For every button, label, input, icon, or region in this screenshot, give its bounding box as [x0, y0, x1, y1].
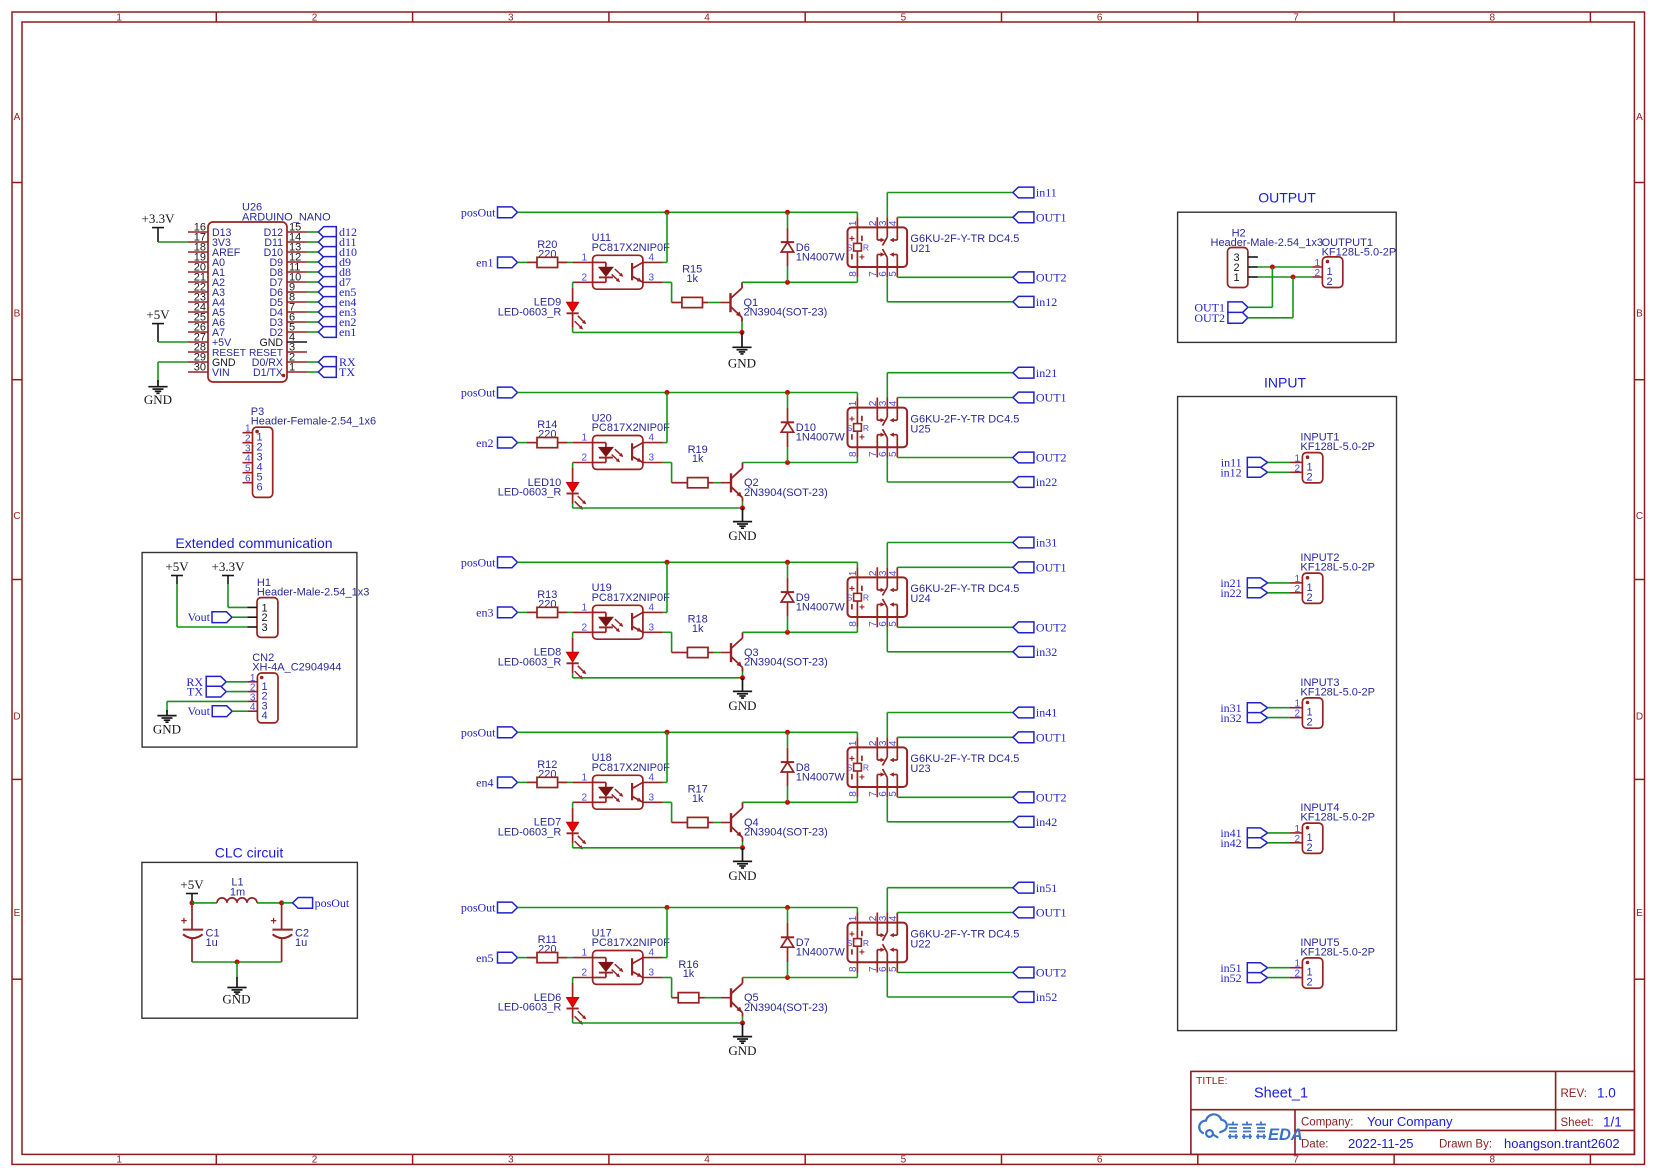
- node GND junction ch1: [740, 330, 745, 335]
- wire R18 to Q3 base: [714, 652, 721, 654]
- svg-text:B: B: [1636, 309, 1643, 320]
- arduino U26 ARDUINO_NANO: [188, 202, 331, 383]
- svg-text:LED-0603_R: LED-0603_R: [498, 1002, 562, 1014]
- svg-text:3: 3: [508, 1155, 514, 1166]
- pin 18 AREF: [188, 251, 208, 253]
- wire net in51: [887, 888, 1013, 913]
- net label TX ext: [187, 685, 226, 699]
- net label OUT1 ch4: [1013, 731, 1067, 745]
- svg-text:OUT2: OUT2: [1036, 966, 1067, 980]
- resistor R11 220: [527, 934, 568, 963]
- svg-text:C: C: [13, 511, 20, 522]
- wire posOut rail ch5: [518, 908, 858, 913]
- net label in42: [1013, 815, 1057, 829]
- svg-text:LED-0603_R: LED-0603_R: [498, 656, 562, 668]
- diode D6 1N4007W: [781, 212, 846, 282]
- resistor R13 220: [527, 589, 568, 618]
- net label in42: [1220, 836, 1267, 850]
- svg-text:8: 8: [848, 271, 859, 277]
- svg-text:GND: GND: [728, 868, 756, 883]
- wire in52: [1268, 977, 1290, 979]
- svg-text:2: 2: [1294, 709, 1300, 720]
- wire GND to pin GND: [158, 361, 188, 363]
- title block: [1191, 1071, 1635, 1154]
- net label RX ext: [186, 675, 226, 689]
- svg-text:VIN: VIN: [212, 367, 230, 379]
- resistor R17 1k: [672, 784, 714, 828]
- resistor R12 220: [527, 759, 568, 788]
- wire in42: [1268, 842, 1290, 844]
- svg-text:in42: in42: [1036, 815, 1057, 829]
- wire net TX: [307, 371, 318, 373]
- wire R12 to U18 pin1: [568, 781, 573, 783]
- pin 23 A4: [188, 301, 208, 303]
- node A (left): [190, 900, 195, 905]
- svg-text:KF128L-5.0-2P: KF128L-5.0-2P: [1300, 812, 1375, 824]
- resistor R20 220: [527, 239, 568, 268]
- svg-text:1k: 1k: [686, 273, 698, 285]
- svg-text:1N4007W: 1N4007W: [796, 947, 846, 959]
- svg-text:4: 4: [704, 1155, 710, 1166]
- svg-text:+5V: +5V: [146, 307, 170, 322]
- net label OUT2 ch5: [1013, 966, 1067, 980]
- svg-text:OUT2: OUT2: [1036, 451, 1067, 465]
- svg-text:3: 3: [649, 453, 655, 464]
- wire U11 pin4 to posOut: [663, 212, 667, 262]
- svg-text:in42: in42: [1220, 836, 1241, 850]
- section Extended communication: [142, 535, 357, 747]
- wire +5V to pin +5V: [158, 341, 188, 343]
- svg-text:KF128L-5.0-2P: KF128L-5.0-2P: [1300, 687, 1375, 699]
- wire net in31: [887, 543, 1013, 568]
- svg-text:CLC circuit: CLC circuit: [215, 845, 284, 861]
- wire en1 to R20: [518, 261, 528, 263]
- wire net d7: [307, 281, 318, 283]
- connector INPUT5 KF128L-5.0-2P: [1290, 937, 1375, 989]
- svg-text:TX: TX: [339, 365, 355, 379]
- svg-text:in32: in32: [1036, 645, 1057, 659]
- wire posOut rail ch3: [518, 562, 858, 567]
- node GND junction ch4: [740, 845, 745, 850]
- svg-text:5: 5: [888, 271, 899, 277]
- pin 1: [243, 432, 253, 434]
- svg-text:4: 4: [649, 602, 655, 613]
- wire in11: [1268, 461, 1290, 463]
- power +5V: [146, 307, 170, 342]
- net label in12: [1013, 295, 1057, 309]
- connector INPUT3 KF128L-5.0-2P: [1290, 677, 1375, 729]
- wire net OUT1 ch4: [897, 736, 1013, 738]
- pin 29 GND: [188, 361, 208, 363]
- svg-text:OUTPUT: OUTPUT: [1258, 190, 1316, 206]
- svg-text:6: 6: [257, 482, 263, 494]
- optocoupler U19 PC817X2NIP0F: [573, 582, 671, 639]
- net label OUT2 ch1: [1013, 271, 1067, 285]
- resistor R19 1k: [672, 444, 714, 488]
- svg-text:Drawn By:: Drawn By:: [1439, 1139, 1492, 1151]
- optocoupler U11 PC817X2NIP0F: [573, 232, 671, 289]
- net label OUT1 ch3: [1013, 561, 1067, 575]
- svg-text:5: 5: [888, 621, 899, 627]
- net label Vout (CN2): [188, 704, 233, 718]
- net label OUT1 ch5: [1013, 906, 1067, 920]
- net label OUT2 ch2: [1013, 451, 1067, 465]
- wire R20 to U11 pin1: [568, 261, 573, 263]
- svg-text:U22: U22: [910, 938, 930, 950]
- svg-text:GND: GND: [728, 698, 756, 713]
- pin 22 A3: [188, 291, 208, 293]
- wire net d11: [307, 241, 318, 243]
- svg-text:PC817X2NIP0F: PC817X2NIP0F: [592, 937, 671, 949]
- net label en2: [318, 315, 356, 329]
- svg-text:1: 1: [581, 948, 587, 959]
- svg-text:4: 4: [262, 710, 268, 722]
- svg-text:in21: in21: [1036, 366, 1057, 380]
- net label posOut ch3: [461, 556, 518, 570]
- svg-text:+: +: [859, 433, 865, 444]
- net label d9: [318, 255, 351, 269]
- svg-text:S: S: [847, 593, 853, 603]
- svg-text:1u: 1u: [295, 937, 307, 949]
- svg-text:U24: U24: [910, 593, 930, 605]
- net label Vout (H1): [188, 610, 232, 624]
- svg-text:in22: in22: [1036, 475, 1057, 489]
- svg-text:2022-11-25: 2022-11-25: [1348, 1136, 1414, 1151]
- wire net in21: [887, 373, 1013, 398]
- svg-text:LED-0603_R: LED-0603_R: [498, 306, 562, 318]
- svg-text:in22: in22: [1220, 586, 1241, 600]
- svg-text:5: 5: [901, 13, 907, 24]
- svg-text:posOut: posOut: [315, 896, 350, 910]
- wire in21: [1268, 582, 1290, 584]
- svg-text:1: 1: [1234, 272, 1240, 284]
- net label in12: [1220, 466, 1267, 480]
- svg-text:Header-Female-2.54_1x6: Header-Female-2.54_1x6: [251, 416, 376, 428]
- wire bottom clc: [192, 961, 282, 963]
- pin 30 VIN: [188, 371, 208, 373]
- svg-text:8: 8: [848, 621, 859, 627]
- svg-text:in41: in41: [1036, 706, 1057, 720]
- pin 6 D3: [287, 321, 307, 323]
- wire in12: [1268, 471, 1290, 473]
- svg-text:Sheet:: Sheet:: [1561, 1117, 1594, 1129]
- connector INPUT4 KF128L-5.0-2P: [1290, 802, 1375, 854]
- svg-text:+3.3V: +3.3V: [142, 211, 176, 226]
- wire U19 pin4 to posOut: [663, 562, 667, 612]
- svg-text:A: A: [1636, 112, 1643, 123]
- svg-text:REV:: REV:: [1561, 1088, 1587, 1100]
- svg-text:3: 3: [508, 13, 514, 24]
- svg-text:Extended communication: Extended communication: [175, 535, 332, 551]
- svg-text:1: 1: [848, 400, 859, 406]
- capacitor C2 1u: [270, 903, 309, 962]
- svg-text:R: R: [863, 423, 869, 433]
- wire H2 pin2 to OUTPUT1 pin1: [1258, 266, 1313, 268]
- svg-text:S: S: [847, 763, 853, 773]
- pin 3 RESET: [287, 351, 307, 353]
- optocoupler U18 PC817X2NIP0F: [573, 752, 671, 809]
- net label OUT2 out: [1194, 311, 1248, 325]
- power +5V clc: [180, 877, 204, 903]
- wire in41: [1268, 832, 1290, 834]
- power +5V ext: [165, 559, 189, 584]
- svg-text:1: 1: [289, 362, 295, 374]
- net label TX: [318, 365, 355, 379]
- relay U24 G6KU-2F-Y-TR DC4.5: [847, 567, 1020, 627]
- svg-text:Vout: Vout: [188, 704, 211, 718]
- section OUTPUT: [1178, 190, 1397, 343]
- net label OUT2 ch3: [1013, 621, 1067, 635]
- svg-text:4: 4: [649, 433, 655, 444]
- svg-text:5: 5: [888, 966, 899, 972]
- pin 2: [243, 442, 253, 444]
- svg-text:Company:: Company:: [1301, 1117, 1353, 1129]
- net label posOut ch1: [461, 206, 518, 220]
- wire posOut rail ch1: [518, 212, 858, 217]
- svg-text:R: R: [863, 763, 869, 773]
- svg-text:1N4007W: 1N4007W: [796, 252, 846, 264]
- svg-text:KF128L-5.0-2P: KF128L-5.0-2P: [1300, 947, 1375, 959]
- ground GND ext: [153, 710, 181, 737]
- svg-text:2: 2: [1307, 977, 1313, 989]
- wire U20 pin4 to posOut: [663, 393, 667, 443]
- wire net OUT2 ch1: [897, 276, 1013, 278]
- svg-text:2: 2: [1294, 834, 1300, 845]
- relay U25 G6KU-2F-Y-TR DC4.5: [847, 398, 1020, 458]
- net label in21: [1013, 366, 1057, 380]
- svg-text:Header-Male-2.54_1x3: Header-Male-2.54_1x3: [257, 587, 370, 599]
- net label RX: [318, 355, 356, 369]
- wire net d9: [307, 261, 318, 263]
- svg-text:in31: in31: [1036, 536, 1057, 550]
- net label posOut ch4: [461, 726, 518, 740]
- resistor R18 1k: [672, 614, 714, 658]
- wire OUT2 drop: [1292, 277, 1294, 318]
- svg-text:3: 3: [649, 622, 655, 633]
- svg-text:LED-0603_R: LED-0603_R: [498, 826, 562, 838]
- wire net en2: [307, 321, 318, 323]
- led LED10 LED-0603_R: [498, 463, 587, 510]
- section CLC circuit: [142, 845, 358, 1019]
- wire net in11: [887, 193, 1013, 218]
- node D7-collector: [785, 975, 790, 980]
- svg-text:2: 2: [1294, 969, 1300, 980]
- svg-text:4: 4: [250, 702, 256, 713]
- resistor R15 1k: [672, 264, 709, 308]
- svg-text:1N4007W: 1N4007W: [796, 602, 846, 614]
- wire collector rail ch3: [743, 627, 858, 632]
- node GND junction ch2: [740, 506, 745, 511]
- net label en5: [318, 285, 356, 299]
- svg-text:8: 8: [848, 966, 859, 972]
- svg-text:A: A: [14, 112, 21, 123]
- transistor Q2 2N3904(SOT-23): [721, 463, 828, 502]
- svg-text:posOut: posOut: [461, 726, 496, 740]
- svg-text:PC817X2NIP0F: PC817X2NIP0F: [592, 422, 671, 434]
- net label OUT1 ch2: [1013, 391, 1067, 405]
- wire Vout to H1 pin2: [232, 616, 248, 618]
- svg-text:2: 2: [581, 792, 587, 803]
- wire CN2 pin3 to GND: [167, 701, 247, 712]
- net label posOut ch2: [461, 386, 518, 400]
- svg-text:D1/TX: D1/TX: [253, 367, 283, 379]
- ground GND ch1: [728, 332, 756, 370]
- node posOut-D10 ch2: [785, 390, 790, 395]
- logo JLC EDA: [1199, 1114, 1303, 1144]
- svg-text:+: +: [181, 915, 187, 927]
- svg-text:OUT2: OUT2: [1036, 621, 1067, 635]
- node GND junction ch3: [740, 675, 745, 680]
- svg-text:3: 3: [649, 968, 655, 979]
- wire net OUT1 ch2: [897, 397, 1013, 399]
- svg-text:2: 2: [312, 1155, 318, 1166]
- wire RX: [226, 681, 247, 683]
- svg-text:KF128L-5.0-2P: KF128L-5.0-2P: [1300, 562, 1375, 574]
- svg-text:+: +: [270, 915, 276, 927]
- node D10-collector: [785, 460, 790, 465]
- pin 14 D11: [287, 241, 307, 243]
- wire net RX: [307, 361, 318, 363]
- svg-text:U23: U23: [910, 763, 930, 775]
- wire collector rail ch4: [743, 797, 858, 802]
- svg-text:4: 4: [649, 948, 655, 959]
- svg-text:6: 6: [245, 474, 251, 485]
- pin 15 D12: [287, 231, 307, 233]
- svg-text:4: 4: [649, 252, 655, 263]
- net label in22: [1013, 475, 1057, 489]
- ground GND clc: [222, 962, 250, 1007]
- pin 21 A2: [188, 281, 208, 283]
- svg-text:KF128L-5.0-2P: KF128L-5.0-2P: [1300, 441, 1375, 453]
- svg-text:+: +: [859, 252, 865, 263]
- svg-text:2N3904(SOT-23): 2N3904(SOT-23): [744, 1002, 828, 1014]
- svg-text:PC817X2NIP0F: PC817X2NIP0F: [592, 592, 671, 604]
- svg-text:1N4007W: 1N4007W: [796, 772, 846, 784]
- svg-text:+5V: +5V: [165, 559, 189, 574]
- svg-text:+: +: [859, 772, 865, 783]
- svg-text:2N3904(SOT-23): 2N3904(SOT-23): [744, 827, 828, 839]
- svg-text:Your Company: Your Company: [1367, 1114, 1453, 1129]
- svg-text:1: 1: [116, 1155, 122, 1166]
- net label in11: [1013, 186, 1057, 200]
- pin 24 A5: [188, 311, 208, 313]
- svg-text:2: 2: [1327, 276, 1333, 288]
- svg-text:EDA: EDA: [1268, 1126, 1303, 1144]
- svg-text:4: 4: [888, 570, 899, 576]
- svg-text:OUT1: OUT1: [1036, 906, 1067, 920]
- transistor Q3 2N3904(SOT-23): [721, 632, 828, 671]
- net label en3: [318, 305, 356, 319]
- net label d11: [318, 235, 356, 249]
- svg-text:8: 8: [1490, 1155, 1496, 1166]
- svg-text:2N3904(SOT-23): 2N3904(SOT-23): [744, 487, 828, 499]
- net label posOut clc: [282, 896, 350, 910]
- svg-text:2: 2: [581, 453, 587, 464]
- connector INPUT2 KF128L-5.0-2P: [1290, 552, 1375, 604]
- wire R14 to U20 pin1: [568, 442, 573, 444]
- svg-text:4: 4: [888, 740, 899, 746]
- svg-text:4: 4: [649, 772, 655, 783]
- svg-text:S: S: [847, 243, 853, 253]
- net label in21: [1220, 576, 1267, 590]
- svg-text:XH-4A_C2904944: XH-4A_C2904944: [252, 662, 341, 674]
- wire net OUT2 ch2: [897, 457, 1013, 459]
- resistor R14 220: [527, 419, 568, 448]
- svg-text:4: 4: [888, 220, 899, 226]
- svg-text:posOut: posOut: [461, 386, 496, 400]
- wire U19 pin3 to R18: [663, 632, 672, 652]
- svg-text:R: R: [863, 243, 869, 253]
- diode D10 1N4007W: [781, 393, 846, 463]
- wire net in42: [887, 797, 1013, 822]
- wire R17 to Q4 base: [714, 822, 721, 824]
- wire emitter-LED-GND ch2: [573, 502, 743, 508]
- node posOut-D8 ch4: [785, 730, 790, 735]
- svg-text:2N3904(SOT-23): 2N3904(SOT-23): [744, 657, 828, 669]
- svg-text:C: C: [1636, 511, 1643, 522]
- svg-text:6: 6: [1097, 1155, 1103, 1166]
- pin 9 D6: [287, 291, 307, 293]
- net label en2: [476, 436, 517, 450]
- wire net en5: [307, 291, 318, 293]
- svg-text:5: 5: [888, 791, 899, 797]
- inductor L1 1m: [192, 877, 282, 903]
- node B (right): [279, 900, 284, 905]
- pin 13 D10: [287, 251, 307, 253]
- node D8-collector: [785, 800, 790, 805]
- pin 5: [243, 472, 253, 474]
- pin 4 GND: [287, 341, 307, 343]
- wire net en3: [307, 311, 318, 313]
- svg-text:in11: in11: [1036, 186, 1057, 200]
- svg-text:GND: GND: [144, 392, 172, 407]
- connector CN2 XH-4A_C2904944: [247, 652, 341, 723]
- wire Vout CN2: [232, 710, 247, 712]
- optocoupler U20 PC817X2NIP0F: [573, 412, 671, 469]
- svg-text:+3.3V: +3.3V: [212, 559, 246, 574]
- svg-text:1: 1: [116, 13, 122, 24]
- svg-text:posOut: posOut: [461, 556, 496, 570]
- relay U21 G6KU-2F-Y-TR DC4.5: [847, 217, 1020, 277]
- svg-text:2: 2: [1307, 592, 1313, 604]
- node D9-collector: [785, 630, 790, 635]
- wire R11 to U17 pin1: [568, 957, 573, 959]
- pin 20 A1: [188, 271, 208, 273]
- connector H2 Header-Male-2.54_1x3: [1211, 228, 1324, 288]
- pin 17 3V3: [188, 241, 208, 243]
- wire U17 pin3 to R16: [663, 978, 672, 998]
- svg-text:8: 8: [848, 791, 859, 797]
- pin 26 A7: [188, 331, 208, 333]
- wire OUT1 drop: [1271, 267, 1273, 307]
- svg-text:1: 1: [848, 915, 859, 921]
- node D6-collector: [785, 280, 790, 285]
- wire net OUT2 ch4: [897, 796, 1013, 798]
- node posOut-D6 ch1: [785, 210, 790, 215]
- svg-text:GND: GND: [728, 1043, 756, 1058]
- svg-text:E: E: [14, 908, 21, 919]
- svg-text:in52: in52: [1036, 990, 1057, 1004]
- ground GND ch4: [728, 848, 756, 883]
- svg-text:3: 3: [262, 622, 268, 634]
- net label d10: [318, 245, 357, 259]
- pin 3: [243, 452, 253, 454]
- wire net OUT2 ch3: [897, 626, 1013, 628]
- svg-text:4: 4: [704, 13, 710, 24]
- svg-text:2: 2: [581, 622, 587, 633]
- diode D9 1N4007W: [781, 562, 846, 632]
- wire net d8: [307, 271, 318, 273]
